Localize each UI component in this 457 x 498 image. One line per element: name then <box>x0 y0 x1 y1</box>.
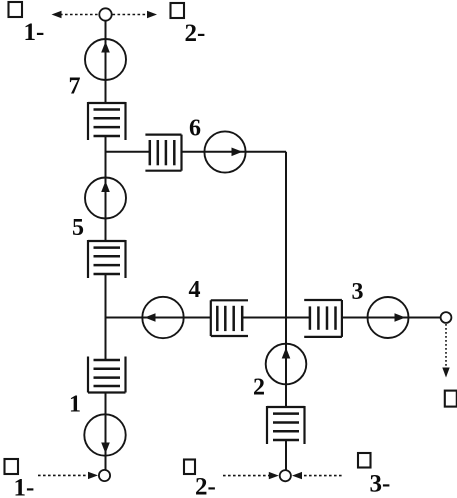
heat exchanger box 3 (vertical hatch, open left) <box>304 300 342 337</box>
heat exchanger box 1 (open top) <box>88 357 126 393</box>
wire: left trunk, terminal to box7 top <box>105 21 107 103</box>
svg-text:2: 2 <box>253 375 265 401</box>
wire: box7 to box5 (through node and pump5) <box>105 136 107 241</box>
dashed arrow right (to port 2-) <box>113 11 158 18</box>
svg-text:6: 6 <box>189 116 201 142</box>
node: bottom-center terminal circle <box>280 470 291 481</box>
dashed arrow from right into bottom-center terminal <box>292 472 342 479</box>
svg-text:1-: 1- <box>14 475 35 498</box>
wire: right trunk vertical (corner to box 2) <box>285 152 287 407</box>
port square bottom-right <box>358 453 371 468</box>
pump 2 circle <box>266 344 307 385</box>
pump 7 circle <box>85 39 126 80</box>
wire: box3 to right terminal <box>342 317 441 319</box>
port square top-right <box>171 3 185 18</box>
port square bottom-left <box>5 459 19 474</box>
heat exchanger box 6 (vertical hatch, open left) <box>145 135 181 171</box>
port square right <box>445 391 457 407</box>
svg-text:2-: 2- <box>195 474 216 498</box>
pump 4 circle <box>142 297 183 338</box>
wire: main line from left trunk junction to box4 left edge <box>106 317 211 319</box>
node: right terminal circle <box>441 312 452 323</box>
svg-text:3: 3 <box>352 279 364 305</box>
svg-text:4: 4 <box>189 277 201 303</box>
pump 3 right arrowhead <box>395 313 406 322</box>
heat exchanger box 5 (open bottom) <box>88 240 126 278</box>
svg-text:5: 5 <box>72 215 84 241</box>
dashed arrow into bottom-left terminal <box>38 472 98 479</box>
svg-text:2-: 2- <box>185 20 206 47</box>
wire: box5 through main junction to box1 top line <box>105 274 107 360</box>
heat exchanger box 7 (open bottom) <box>88 102 126 140</box>
pump 2 up arrowhead <box>282 348 291 359</box>
heat exchanger box 2 (open bottom) <box>267 406 305 444</box>
pump 1 circle <box>84 414 125 455</box>
pump 6 circle <box>204 131 245 172</box>
svg-text:1-: 1- <box>24 19 45 46</box>
svg-text:1: 1 <box>69 392 81 418</box>
pump 6 right arrowhead <box>232 148 243 157</box>
dashed arrow from left into bottom-center terminal <box>223 472 279 479</box>
heat exchanger box 4 (vertical hatch, open right) <box>211 300 248 336</box>
wire: box1 to bottom-left terminal <box>105 393 107 471</box>
port square top-left <box>9 2 23 17</box>
pump 7 up arrowhead <box>101 42 110 53</box>
node: top terminal circle <box>99 8 111 20</box>
wire: box4 through crossing to box3 <box>242 317 310 319</box>
dotted arrow down from right terminal <box>442 324 449 378</box>
pump 5 circle <box>85 178 126 219</box>
pump 3 circle <box>368 297 409 338</box>
svg-text:7: 7 <box>69 74 81 100</box>
wire: box2 to bottom-center terminal <box>285 440 287 470</box>
port square bottom-middle <box>184 460 195 475</box>
svg-text:3-: 3- <box>370 471 391 498</box>
pump 1 down arrowhead <box>101 443 110 454</box>
dashed arrow left (to port 1-) <box>52 11 100 18</box>
wire: box6 to right trunk corner <box>182 151 287 153</box>
wire: branch from left trunk to box 6 <box>106 151 150 153</box>
node: bottom-left terminal circle <box>99 470 110 481</box>
pump 4 left arrowhead <box>145 313 156 322</box>
pump 5 up arrowhead <box>101 181 110 192</box>
